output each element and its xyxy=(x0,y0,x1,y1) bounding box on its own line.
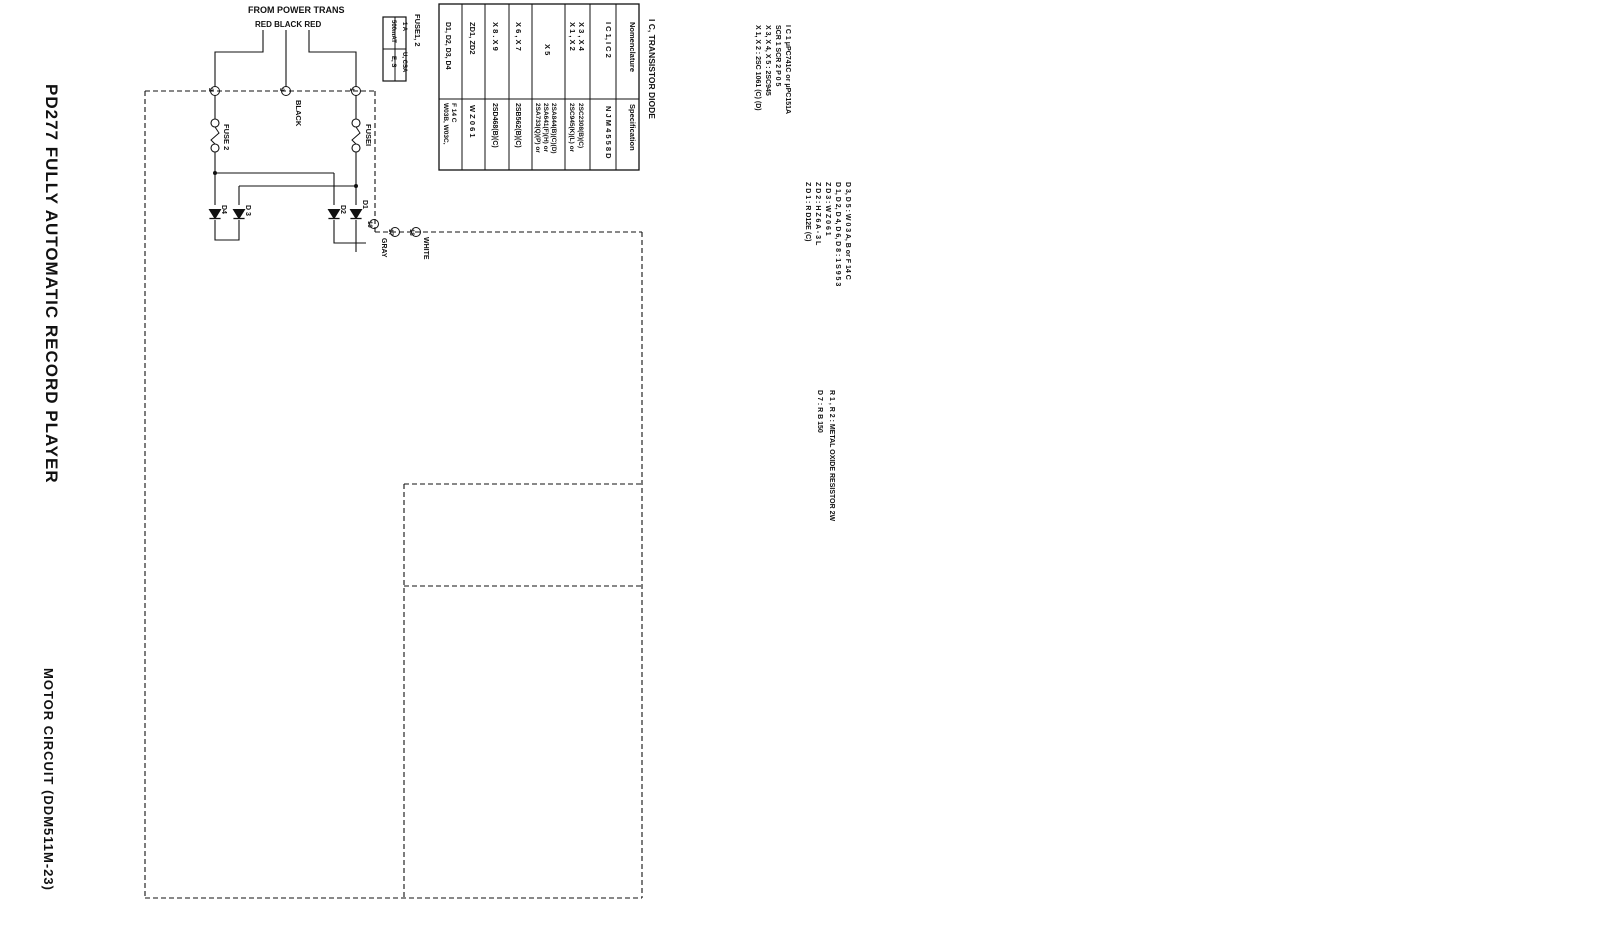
svg-text:R 1 , R 2 : METAL OXIDE RES: R 1 , R 2 : METAL OXIDE RESISTOR 2W xyxy=(828,390,835,521)
svg-text:GRAY: GRAY xyxy=(380,238,387,258)
svg-text:D 7 : R B 150: D 7 : R B 150 xyxy=(816,390,823,433)
wire row y173 xyxy=(215,172,334,174)
node 2 xyxy=(211,87,220,96)
svg-text:Specification: Specification xyxy=(628,104,637,151)
node 1 xyxy=(352,87,361,96)
svg-text:X 1, X 2 : 2SC 1061 (C) (D): X 1, X 2 : 2SC 1061 (C) (D) xyxy=(754,25,761,111)
node 18 xyxy=(412,228,421,237)
node 3 xyxy=(282,87,291,96)
svg-text:U, CSA: U, CSA xyxy=(401,52,407,73)
svg-text:D 1, D 2, D 4, D 6, D 8 :: D 1, D 2, D 4, D 6, D 8 : 1 S 9 5 3 xyxy=(834,182,841,286)
svg-text:FUSE 2: FUSE 2 xyxy=(222,124,231,150)
diode D2 xyxy=(328,210,339,219)
dashed motor circuit box xyxy=(145,90,375,92)
wire to fuse2 xyxy=(214,95,216,119)
svg-text:MOTOR CIRCUIT (DDM511M-23): MOTOR CIRCUIT (DDM511M-23) xyxy=(41,668,56,891)
svg-text:D 3: D 3 xyxy=(244,205,251,216)
svg-text:2SA844(B)(C)(D): 2SA844(B)(C)(D) xyxy=(550,103,557,154)
svg-text:Z D 2 : H Z 6 A - 3 L: Z D 2 : H Z 6 A - 3 L xyxy=(814,182,821,246)
diode D1 xyxy=(350,210,361,219)
wire D4 D3 join xyxy=(215,220,239,240)
diode D3 xyxy=(233,210,244,219)
svg-text:X 1 , X 2: X 1 , X 2 xyxy=(568,22,577,51)
svg-text:BLACK: BLACK xyxy=(294,100,303,127)
svg-text:RED BLACK RED: RED BLACK RED xyxy=(255,20,321,29)
svg-text:WHITE: WHITE xyxy=(422,237,429,260)
svg-text:I C, TRANSISTOR DIODE: I C, TRANSISTOR DIODE xyxy=(647,19,657,119)
wire red right xyxy=(309,30,356,87)
svg-text:I C 1 μPC741C or μPC151A: I C 1 μPC741C or μPC151A xyxy=(784,25,791,114)
table IC TRANSISTOR DIODE xyxy=(439,4,639,170)
wire black mid xyxy=(285,30,287,87)
svg-text:I C 1, I C 2: I C 1, I C 2 xyxy=(604,22,613,58)
svg-text:17: 17 xyxy=(387,229,393,236)
svg-text:D 3, D 5 : W 0 3 A, B or: D 3, D 5 : W 0 3 A, B or F 14 C xyxy=(844,182,851,280)
wire fuse1 down xyxy=(355,152,357,205)
svg-text:19: 19 xyxy=(366,221,372,228)
svg-text:2SD468(B)(C): 2SD468(B)(C) xyxy=(491,103,498,148)
svg-text:X 5: X 5 xyxy=(543,44,552,55)
svg-text:X 3, X 4, X 5 : 2SC945: X 3, X 4, X 5 : 2SC945 xyxy=(764,25,771,96)
svg-text:SCR 1 SCR 2 P 0 5: SCR 1 SCR 2 P 0 5 xyxy=(774,25,781,86)
svg-text:Z D 3 : W Z 0 6 1: Z D 3 : W Z 0 6 1 xyxy=(824,182,831,236)
svg-text:W Z 0 6 1: W Z 0 6 1 xyxy=(468,105,477,138)
wire row y186 xyxy=(239,185,356,187)
svg-text:X 6 , X 7: X 6 , X 7 xyxy=(514,22,523,51)
svg-text:X 3 , X 4: X 3 , X 4 xyxy=(577,22,586,52)
svg-text:D1: D1 xyxy=(361,200,368,209)
svg-text:2SB562(B)(C): 2SB562(B)(C) xyxy=(514,103,521,148)
svg-text:18: 18 xyxy=(408,229,414,236)
svg-text:PD277 FULLY AUTOMATIC RECOR: PD277 FULLY AUTOMATIC RECORD PLAYER xyxy=(42,84,61,484)
diode D4 xyxy=(209,210,220,219)
svg-text:D1, D2, D3, D4: D1, D2, D3, D4 xyxy=(444,22,451,70)
svg-text:N J M 4 5 5 8 D: N J M 4 5 5 8 D xyxy=(604,106,613,159)
svg-text:2SC945(K)(L) or: 2SC945(K)(L) or xyxy=(568,103,575,153)
wire D2 D1 join xyxy=(334,220,366,243)
svg-text:FUSEI: FUSEI xyxy=(364,124,373,146)
svg-text:Nomenclature: Nomenclature xyxy=(628,22,637,72)
svg-text:2SC2308(B)(C): 2SC2308(B)(C) xyxy=(577,103,584,148)
dashed row 14 9 xyxy=(404,585,642,587)
svg-text:1 A: 1 A xyxy=(401,22,407,32)
svg-text:D4: D4 xyxy=(220,205,227,214)
fuse FUSE1 xyxy=(355,95,357,119)
svg-text:FROM POWER TRANS: FROM POWER TRANS xyxy=(248,5,345,15)
svg-text:FUSE1, 2: FUSE1, 2 xyxy=(413,14,422,47)
table FUSE1,2 xyxy=(383,17,406,81)
svg-text:X 8 . X 9: X 8 . X 9 xyxy=(491,22,500,51)
svg-text:2SA733(Q)(P) or: 2SA733(Q)(P) or xyxy=(534,103,541,153)
svg-text:D2: D2 xyxy=(339,205,346,214)
svg-text:W03B, W03C,: W03B, W03C, xyxy=(442,103,449,145)
node 19 xyxy=(370,220,379,229)
svg-text:2SA641(F)(H) or: 2SA641(F)(H) or xyxy=(542,103,549,153)
svg-text:Z D 1 : R D12E (C): Z D 1 : R D12E (C) xyxy=(804,182,811,242)
node 17 xyxy=(391,228,400,237)
fuse FUSE2 xyxy=(211,119,219,127)
wire fuse2 down xyxy=(214,152,216,205)
svg-text:E, S: E, S xyxy=(390,56,396,67)
dashed control inner box xyxy=(404,483,642,485)
wire red left xyxy=(215,30,263,87)
svg-text:500mAT: 500mAT xyxy=(390,20,396,43)
svg-text:ZD1, ZD2: ZD1, ZD2 xyxy=(468,22,477,55)
svg-text:F 14 C: F 14 C xyxy=(450,103,457,123)
